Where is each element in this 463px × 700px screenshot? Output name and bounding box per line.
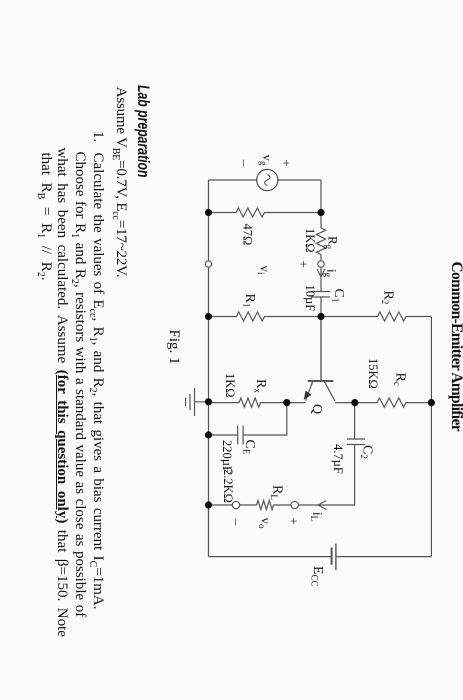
- arrow iL: [318, 501, 326, 510]
- node dot emitter: [283, 399, 290, 406]
- node dot rail R1: [205, 313, 212, 320]
- svg-text:ECC: ECC: [310, 566, 326, 587]
- node dot collector: [351, 399, 358, 406]
- resistor R1 branch: [209, 312, 322, 321]
- capacitor C1 plates: [311, 292, 330, 298]
- wire: vg branch top segment: [278, 179, 321, 181]
- svg-text:iL: iL: [309, 512, 326, 521]
- heading Lab preparation: [133, 85, 153, 177]
- resistor Rc branch: [355, 398, 432, 407]
- capacitor C2 + wire to RL: [299, 403, 355, 505]
- svg-text:Rc: Rc: [392, 373, 408, 386]
- node dot rail 47ohm: [205, 209, 212, 216]
- svg-text:vi: vi: [256, 265, 273, 275]
- svg-text:–: –: [230, 518, 245, 526]
- wire: vg branch bottom segment: [209, 179, 257, 181]
- node: input terminal top (open circle): [318, 261, 324, 267]
- wire: right rail upper (to battery): [336, 556, 432, 558]
- svg-text:220µF: 220µF: [220, 440, 234, 473]
- list item number: [89, 131, 106, 142]
- svg-text:–: –: [237, 159, 252, 167]
- wire: input top wire vg to Rg: [320, 180, 322, 228]
- node: input terminal bottom (open circle): [205, 261, 211, 267]
- svg-text:Q: Q: [309, 404, 324, 414]
- resistor RL branch with terminals: [277, 504, 295, 506]
- svg-text:47Ω: 47Ω: [241, 224, 255, 246]
- wire: right rail lower (from battery): [209, 556, 332, 558]
- wire: top Vcc rail: [430, 317, 432, 557]
- list item line 1: [89, 153, 106, 610]
- list item line 2: [71, 152, 88, 618]
- svg-text:1KΩ: 1KΩ: [303, 228, 317, 253]
- svg-text:RL: RL: [269, 485, 285, 500]
- svg-text:1KΩ: 1KΩ: [223, 373, 237, 398]
- wire: bottom ground rail: [208, 180, 210, 557]
- resistor Rx branch: [209, 398, 287, 407]
- ground: [186, 388, 209, 416]
- svg-text:vg: vg: [259, 155, 276, 167]
- node dot base: [317, 313, 324, 320]
- title: [447, 262, 463, 432]
- list item line 3: [54, 148, 71, 637]
- svg-text:10µF: 10µF: [303, 285, 317, 312]
- resistor 47ohm branch: [209, 208, 322, 217]
- resistor R2 branch: [321, 312, 431, 321]
- svg-text:4.7µF: 4.7µF: [331, 444, 345, 474]
- transistor Q: [320, 317, 322, 381]
- svg-text:+: +: [279, 159, 294, 166]
- svg-text:+: +: [287, 517, 302, 524]
- wire: C1 to base: [320, 297, 322, 381]
- node dot rail CE: [205, 431, 212, 438]
- node dot rail ground: [205, 398, 212, 405]
- svg-text:vo: vo: [257, 518, 274, 530]
- svg-text:+: +: [297, 260, 312, 267]
- svg-text:R1: R1: [242, 294, 258, 308]
- svg-text:C1: C1: [331, 289, 347, 303]
- node dot rail RL: [205, 501, 212, 508]
- paragraph line: Assume: [112, 87, 129, 278]
- svg-text:R2: R2: [380, 291, 396, 305]
- arrow ig: [317, 269, 325, 277]
- node dot top-left (47ohm top): [317, 209, 324, 216]
- source vg (AC source circle): [257, 169, 278, 190]
- svg-text:Rg: Rg: [324, 236, 341, 250]
- capacitor CE branch: [209, 403, 287, 435]
- resistor Rg 1K: [316, 228, 325, 255]
- svg-text:C2: C2: [359, 445, 375, 459]
- caption Fig. 1: [165, 330, 182, 365]
- wire: terminal to C1: [320, 267, 322, 291]
- battery Ecc: [335, 544, 337, 570]
- svg-text:CE: CE: [242, 440, 258, 455]
- svg-text:15KΩ: 15KΩ: [366, 358, 380, 389]
- wire: Rg to terminal: [320, 255, 322, 261]
- svg-text:ig: ig: [323, 269, 340, 278]
- svg-text:Rx: Rx: [253, 379, 269, 393]
- node dot Rc top rail: [428, 399, 435, 406]
- list item line 4: [37, 153, 54, 281]
- svg-text:2.2KΩ: 2.2KΩ: [221, 469, 235, 503]
